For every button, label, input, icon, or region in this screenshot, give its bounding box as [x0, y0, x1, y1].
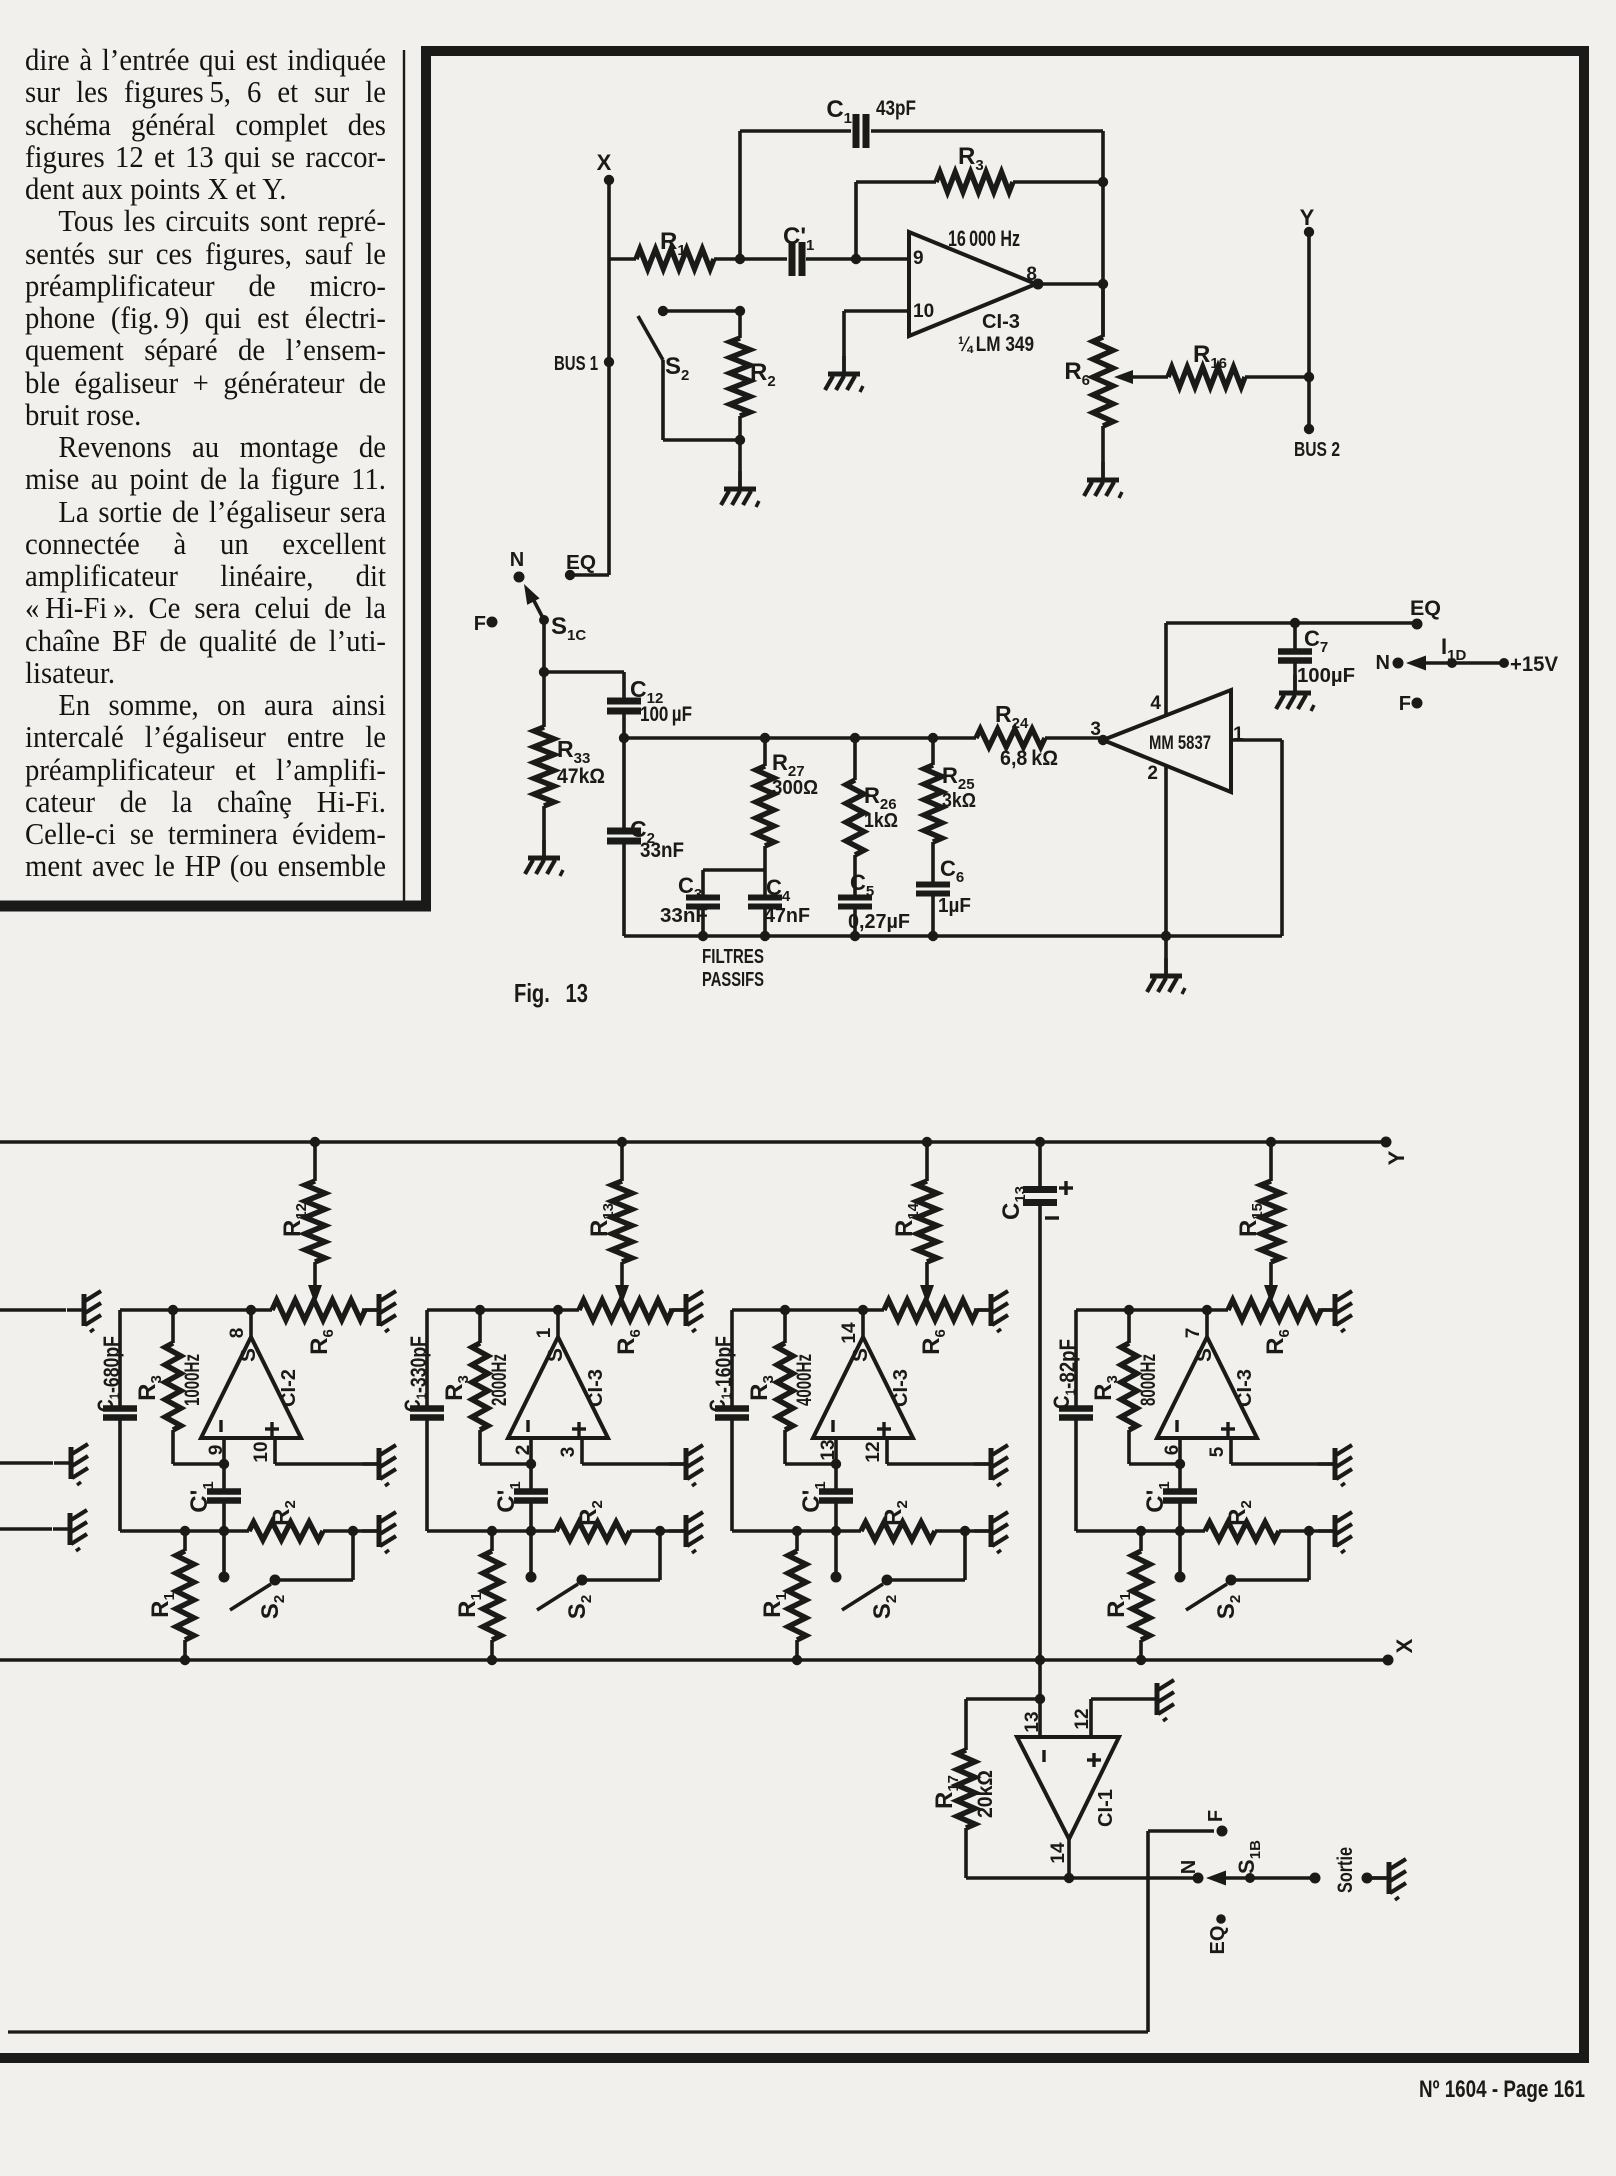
- svg-text:EQ: EQ: [566, 552, 596, 574]
- svg-text:R1: R1: [454, 1592, 485, 1618]
- svg-text:10: 10: [913, 301, 934, 322]
- svg-text:2: 2: [1147, 763, 1158, 784]
- svg-text:9: 9: [913, 248, 924, 269]
- svg-text:R1: R1: [147, 1592, 178, 1618]
- svg-text:F: F: [1205, 1810, 1227, 1822]
- svg-text:R12: R12: [279, 1203, 310, 1237]
- svg-text:Y: Y: [1300, 205, 1315, 230]
- svg-text:C'1: C'1: [493, 1481, 524, 1512]
- svg-text:R2: R2: [1224, 1500, 1255, 1526]
- svg-text:S: S: [1193, 1348, 1216, 1362]
- svg-text:4: 4: [1150, 693, 1161, 714]
- svg-text:1000Hz: 1000Hz: [181, 1354, 204, 1406]
- svg-text:2000Hz: 2000Hz: [488, 1354, 511, 1406]
- svg-text:¼ LM 349: ¼ LM 349: [958, 333, 1034, 356]
- svg-text:33nF: 33nF: [660, 905, 708, 927]
- svg-text:R3: R3: [958, 143, 984, 174]
- svg-text:CI-3: CI-3: [982, 311, 1020, 333]
- svg-text:CI-3: CI-3: [1234, 1369, 1256, 1407]
- svg-text:S: S: [849, 1348, 872, 1362]
- svg-text:S2: S2: [1213, 1595, 1244, 1619]
- svg-text:N: N: [1178, 1860, 1200, 1874]
- svg-text:R2: R2: [268, 1500, 299, 1526]
- svg-text:PASSIFS: PASSIFS: [702, 969, 764, 991]
- svg-text:100 µF: 100 µF: [640, 703, 692, 726]
- svg-text:S2: S2: [564, 1595, 595, 1619]
- svg-text:R6: R6: [918, 1329, 949, 1355]
- svg-text:R1: R1: [660, 228, 686, 259]
- svg-text:R2: R2: [750, 359, 776, 390]
- svg-text:1µF: 1µF: [938, 895, 971, 917]
- svg-text:R2: R2: [880, 1500, 911, 1526]
- svg-text:Sortie: Sortie: [1334, 1847, 1357, 1893]
- svg-text:12: 12: [1072, 1708, 1093, 1729]
- svg-text:S: S: [544, 1348, 567, 1362]
- svg-text:MM 5837: MM 5837: [1149, 733, 1211, 754]
- svg-text:CI-3: CI-3: [890, 1369, 912, 1407]
- svg-text:C'1: C'1: [783, 223, 814, 254]
- svg-text:R6: R6: [306, 1329, 337, 1355]
- svg-text:BUS 1: BUS 1: [554, 353, 598, 375]
- svg-text:8000Hz: 8000Hz: [1137, 1354, 1160, 1406]
- svg-text:FILTRES: FILTRES: [702, 946, 764, 968]
- svg-text:S2: S2: [665, 353, 689, 384]
- svg-text:I1D: I1D: [1441, 634, 1466, 664]
- svg-text:4000Hz: 4000Hz: [793, 1354, 816, 1406]
- svg-text:R27: R27: [772, 750, 805, 780]
- svg-text:9: 9: [206, 1445, 227, 1456]
- svg-text:+15V: +15V: [1510, 653, 1558, 676]
- svg-text:X: X: [597, 150, 612, 175]
- svg-text:R17: R17: [931, 1775, 962, 1809]
- svg-text:R1: R1: [759, 1592, 790, 1618]
- svg-text:20kΩ: 20kΩ: [974, 1770, 997, 1818]
- svg-text:CI-2: CI-2: [278, 1369, 300, 1407]
- svg-text:R3: R3: [441, 1375, 472, 1401]
- svg-text:R16: R16: [1193, 341, 1227, 372]
- svg-text:Nº 1604 - Page 161: Nº 1604 - Page 161: [1419, 2076, 1585, 2103]
- svg-text:1: 1: [534, 1327, 555, 1338]
- svg-text:R1: R1: [1103, 1592, 1134, 1618]
- svg-text:8: 8: [227, 1328, 248, 1339]
- svg-text:R6: R6: [1064, 358, 1090, 389]
- svg-text:C'1: C'1: [186, 1481, 217, 1512]
- svg-text:300Ω: 300Ω: [772, 777, 818, 799]
- svg-text:C'1: C'1: [1142, 1481, 1173, 1512]
- svg-text:6,8 kΩ: 6,8 kΩ: [1000, 747, 1058, 770]
- svg-text:10: 10: [251, 1441, 272, 1462]
- svg-text:16 000 Hz: 16 000 Hz: [948, 226, 1020, 251]
- svg-text:47nF: 47nF: [764, 905, 810, 927]
- svg-text:2: 2: [513, 1445, 534, 1456]
- svg-text:N: N: [1376, 652, 1390, 674]
- svg-text:X: X: [1392, 1638, 1417, 1653]
- svg-text:13: 13: [818, 1439, 839, 1460]
- svg-text:7: 7: [1183, 1328, 1204, 1339]
- svg-text:R3: R3: [134, 1375, 165, 1401]
- svg-text:CI-3: CI-3: [585, 1369, 607, 1407]
- svg-text:R2: R2: [575, 1500, 606, 1526]
- svg-text:EQ: EQ: [1410, 597, 1441, 620]
- svg-text:R6: R6: [1262, 1329, 1293, 1355]
- svg-text:F: F: [474, 613, 486, 635]
- svg-text:6: 6: [1162, 1445, 1183, 1456]
- svg-text:5: 5: [1207, 1446, 1228, 1457]
- svg-text:C1: C1: [826, 96, 852, 127]
- svg-text:0,27µF: 0,27µF: [848, 911, 910, 933]
- svg-text:S: S: [237, 1348, 260, 1362]
- svg-text:R24: R24: [995, 701, 1029, 732]
- svg-text:R6: R6: [613, 1329, 644, 1355]
- svg-text:Fig. 13: Fig. 13: [514, 978, 588, 1008]
- svg-text:S2: S2: [257, 1595, 288, 1619]
- svg-text:R14: R14: [891, 1202, 922, 1237]
- svg-text:N: N: [510, 549, 524, 571]
- svg-text:43pF: 43pF: [876, 97, 916, 120]
- svg-text:R3: R3: [746, 1375, 777, 1401]
- svg-text:33nF: 33nF: [640, 839, 684, 862]
- svg-text:R33: R33: [557, 736, 590, 767]
- svg-text:F: F: [1399, 693, 1411, 715]
- svg-text:1: 1: [1233, 724, 1244, 745]
- svg-text:47kΩ: 47kΩ: [557, 765, 605, 788]
- svg-text:12: 12: [863, 1441, 884, 1462]
- svg-text:EQ: EQ: [1207, 1926, 1229, 1955]
- svg-text:100µF: 100µF: [1297, 665, 1355, 687]
- svg-text:1kΩ: 1kΩ: [864, 810, 898, 832]
- svg-text:S1C: S1C: [551, 613, 586, 644]
- svg-text:14: 14: [839, 1322, 860, 1344]
- svg-text:3: 3: [558, 1447, 579, 1458]
- svg-text:CI-1: CI-1: [1095, 1789, 1117, 1827]
- svg-text:13: 13: [1022, 1711, 1043, 1732]
- svg-text:R15: R15: [1235, 1203, 1266, 1237]
- svg-text:BUS 2: BUS 2: [1294, 439, 1340, 461]
- svg-text:C13: C13: [998, 1186, 1029, 1220]
- svg-text:C'1: C'1: [798, 1481, 829, 1512]
- svg-text:R25: R25: [942, 763, 975, 793]
- svg-text:R13: R13: [586, 1203, 617, 1237]
- svg-text:3kΩ: 3kΩ: [942, 790, 976, 812]
- svg-text:14: 14: [1048, 1842, 1069, 1864]
- svg-text:R26: R26: [864, 783, 897, 813]
- svg-text:R3: R3: [1090, 1375, 1121, 1401]
- svg-text:Y: Y: [1384, 1150, 1409, 1165]
- svg-text:S2: S2: [869, 1595, 900, 1619]
- svg-text:S1B: S1B: [1234, 1840, 1264, 1874]
